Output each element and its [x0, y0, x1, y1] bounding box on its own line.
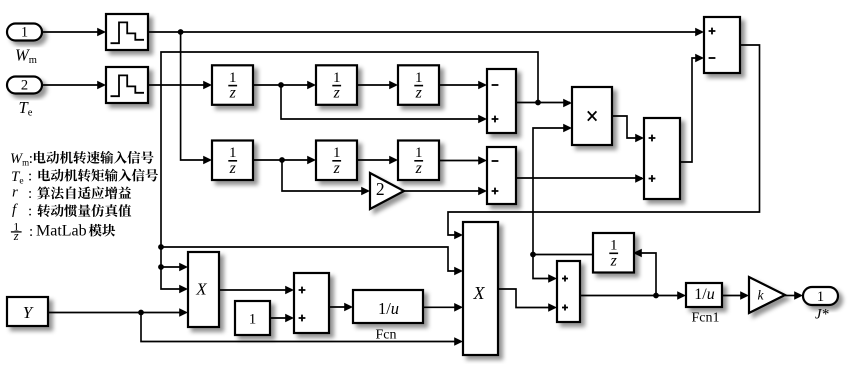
svg-text:Y: Y — [23, 303, 34, 322]
svg-text:1: 1 — [21, 25, 28, 41]
svg-text:1: 1 — [249, 312, 257, 328]
svg-text:J*: J* — [815, 307, 829, 323]
svg-text::: : — [29, 151, 33, 167]
svg-text:1: 1 — [229, 145, 237, 161]
svg-text:z: z — [415, 160, 423, 177]
svg-text:1: 1 — [229, 70, 237, 86]
svg-text:X: X — [195, 280, 207, 299]
svg-text:2: 2 — [376, 179, 385, 199]
svg-text:Fcn1: Fcn1 — [692, 311, 720, 326]
svg-text:1: 1 — [415, 145, 423, 161]
svg-text:z: z — [13, 229, 19, 243]
svg-text::: : — [28, 186, 32, 202]
svg-text:1: 1 — [333, 70, 341, 86]
svg-text:1/u: 1/u — [694, 286, 714, 303]
svg-text:MatLab: MatLab — [36, 222, 87, 239]
svg-text:z: z — [229, 85, 237, 102]
svg-text:2: 2 — [21, 78, 28, 94]
svg-text:1: 1 — [333, 145, 341, 161]
svg-text:z: z — [610, 252, 618, 269]
svg-text:z: z — [333, 160, 341, 177]
svg-text:r: r — [12, 185, 18, 201]
svg-text::: : — [28, 169, 32, 185]
svg-text:1: 1 — [610, 238, 618, 254]
svg-text:z: z — [415, 85, 423, 102]
svg-text:z: z — [333, 85, 341, 102]
svg-text:X: X — [473, 283, 486, 303]
svg-text::: : — [29, 224, 33, 240]
svg-text::: : — [28, 204, 32, 220]
svg-text:Fcn: Fcn — [376, 328, 397, 343]
svg-text:1/u: 1/u — [378, 299, 399, 318]
svg-text:1: 1 — [817, 289, 824, 305]
svg-text:z: z — [229, 160, 237, 177]
svg-text:k: k — [758, 288, 765, 303]
svg-text:1: 1 — [415, 70, 423, 86]
